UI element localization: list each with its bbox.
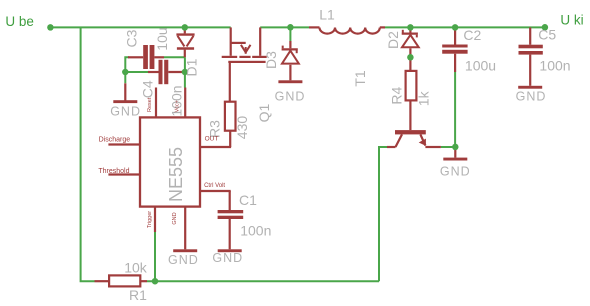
zener diode D3 (282, 46, 299, 64)
wire C3 left pin (128, 56, 143, 58)
svg-text:100n: 100n (240, 222, 271, 238)
wire C2 bottom red part (454, 54, 456, 72)
svg-text:C4: C4 (140, 80, 156, 98)
svg-text:NE555: NE555 (166, 147, 186, 202)
svg-text:100n: 100n (539, 58, 570, 74)
wire D3 GND lead (289, 65, 291, 81)
wire T1 emitter to GND node (441, 146, 455, 148)
wire T1 collector red part (387, 146, 396, 148)
inductor L1 (320, 28, 380, 34)
svg-text:GND: GND (168, 253, 199, 267)
svg-text:1k: 1k (416, 90, 432, 106)
wire C3 right to D1 (164, 56, 185, 58)
svg-text:GND: GND (516, 90, 547, 104)
svg-text:GND: GND (212, 251, 243, 265)
resistor R4 (406, 71, 417, 101)
capacitor C2 (442, 45, 467, 54)
wire top rail left (U be to Q1 source) (50, 26, 230, 28)
wire R1 right pin (140, 280, 147, 282)
svg-text:Ctrl Volt: Ctrl Volt (204, 183, 225, 189)
svg-text:R4: R4 (388, 87, 404, 105)
capacitor C1 (218, 210, 244, 219)
wire D2 anode stub (409, 27, 411, 32)
svg-text:10u: 10u (154, 27, 170, 50)
node D1 anode junction (182, 24, 189, 31)
node D2 junction (407, 24, 414, 31)
wire C4 left pin (148, 71, 159, 73)
wire C1 top lead (229, 191, 231, 210)
svg-text:D1: D1 (184, 58, 200, 76)
resistor R3 (225, 102, 236, 131)
svg-text:430: 430 (234, 116, 250, 140)
capacitor C3 (143, 45, 154, 69)
wire C4 right pin (168, 71, 185, 73)
pin GND of U1 (184, 207, 186, 250)
svg-text:Threshold: Threshold (98, 168, 129, 175)
wire (50, 27, 545, 281)
wire C5 GND lead (529, 55, 531, 86)
wire R1 left pin (95, 280, 110, 282)
svg-text:U be: U be (5, 14, 34, 29)
pin Discharge of U1 (108, 143, 140, 145)
wire C2 bottom (454, 72, 456, 147)
svg-text:U ki: U ki (560, 13, 583, 28)
node D3 junction (287, 24, 294, 31)
svg-text:Vcc+: Vcc+ (175, 100, 181, 112)
op-amp U1 NE555 box (140, 117, 200, 206)
svg-text:C2: C2 (463, 27, 481, 43)
ground (D3) (278, 80, 302, 83)
node U ki end (542, 24, 549, 31)
svg-text:D2: D2 (385, 31, 401, 49)
wire R3 bottom lead (229, 131, 231, 147)
wire top rail mid (Q1 drain to L1) (260, 26, 309, 28)
wire D3 top (289, 27, 291, 41)
pins and component leads (dark red) (95, 27, 531, 281)
node Vcc junction (182, 69, 189, 76)
wire T1 GND lead (454, 147, 456, 158)
capacitor C4 (159, 60, 169, 84)
node C2 junction (452, 24, 459, 31)
wire T1 collector riser (379, 147, 387, 281)
svg-text:R1: R1 (129, 287, 147, 303)
wire D1 cathode stub (184, 50, 186, 58)
wire Q1 gate lead / R3 top lead (229, 63, 231, 102)
svg-text:GND: GND (275, 90, 306, 104)
svg-text:10k: 10k (124, 260, 148, 276)
wire C2 top lead (454, 27, 456, 44)
pin Vcc of U1 (184, 88, 186, 118)
wire bottom rail (147, 280, 379, 282)
transistor T1 (PNP) (395, 130, 426, 147)
wire Q1 source lead (230, 27, 232, 55)
wire Q1 drain lead (259, 27, 261, 55)
wire left feedback drop (81, 27, 95, 281)
capacitor C5 (519, 45, 543, 55)
svg-text:Discharge: Discharge (99, 137, 131, 144)
transistor Q1 (p-channel MOSFET) (222, 56, 267, 63)
wire L1 left pin (309, 26, 320, 28)
wire trigger (154, 232, 156, 281)
svg-text:Q1: Q1 (256, 103, 272, 122)
pin Ctrl Volt of U1 (201, 190, 231, 192)
wire C5 top lead (529, 27, 531, 44)
wire D3 top stub (289, 41, 291, 48)
svg-text:T1: T1 (352, 70, 368, 87)
wire C4 left (125, 71, 148, 73)
svg-text:GND: GND (110, 105, 141, 119)
node U be start (47, 24, 54, 31)
wire Vcc net vertical (184, 57, 186, 87)
wire C3 right pin (154, 56, 164, 58)
wire C3 left (125, 57, 129, 83)
svg-text:D3: D3 (263, 51, 279, 69)
node C3/C4 left junction (122, 69, 129, 76)
wire L1 right pin (380, 26, 385, 28)
svg-text:GND: GND (172, 212, 178, 224)
wire D2 cathode to R4 (409, 48, 411, 71)
ground (U1 GND pin) (173, 249, 197, 252)
ground (T1 / C2) (443, 158, 467, 161)
wire left GND lead (124, 83, 126, 100)
pin Trigger of U1 (154, 207, 156, 232)
wire D1 anode stub (184, 27, 186, 33)
svg-text:C3: C3 (124, 29, 140, 47)
resistor R1 (109, 275, 140, 286)
svg-text:C5: C5 (538, 26, 556, 42)
diode D1 (176, 35, 194, 49)
pin Threshold of U1 (108, 173, 140, 175)
node T1 emitter / GND junction (452, 144, 459, 151)
svg-text:Reset: Reset (147, 97, 153, 112)
pin Reset of U1 (155, 88, 157, 118)
pin OUT of U1 (201, 146, 232, 148)
svg-text:Trigger: Trigger (147, 211, 153, 228)
wire top rail right (L1 to U ki) (385, 26, 545, 28)
zener diode D2 (402, 30, 419, 48)
svg-text:GND: GND (440, 165, 471, 179)
svg-text:L1: L1 (319, 7, 335, 23)
node R1 / Trigger junction (152, 278, 159, 285)
ground (C1) (218, 249, 242, 252)
ground (C3/C4 left) (113, 100, 137, 103)
svg-text:OUT: OUT (205, 136, 219, 143)
svg-text:100u: 100u (465, 58, 496, 74)
node D2/R4 junction (407, 54, 414, 61)
svg-text:C1: C1 (239, 192, 257, 208)
wire T1 emitter red part (425, 146, 441, 148)
ground (C5) (518, 86, 542, 89)
wire C1 bottom lead (229, 219, 231, 249)
wire R4 to T1 base (409, 100, 411, 130)
